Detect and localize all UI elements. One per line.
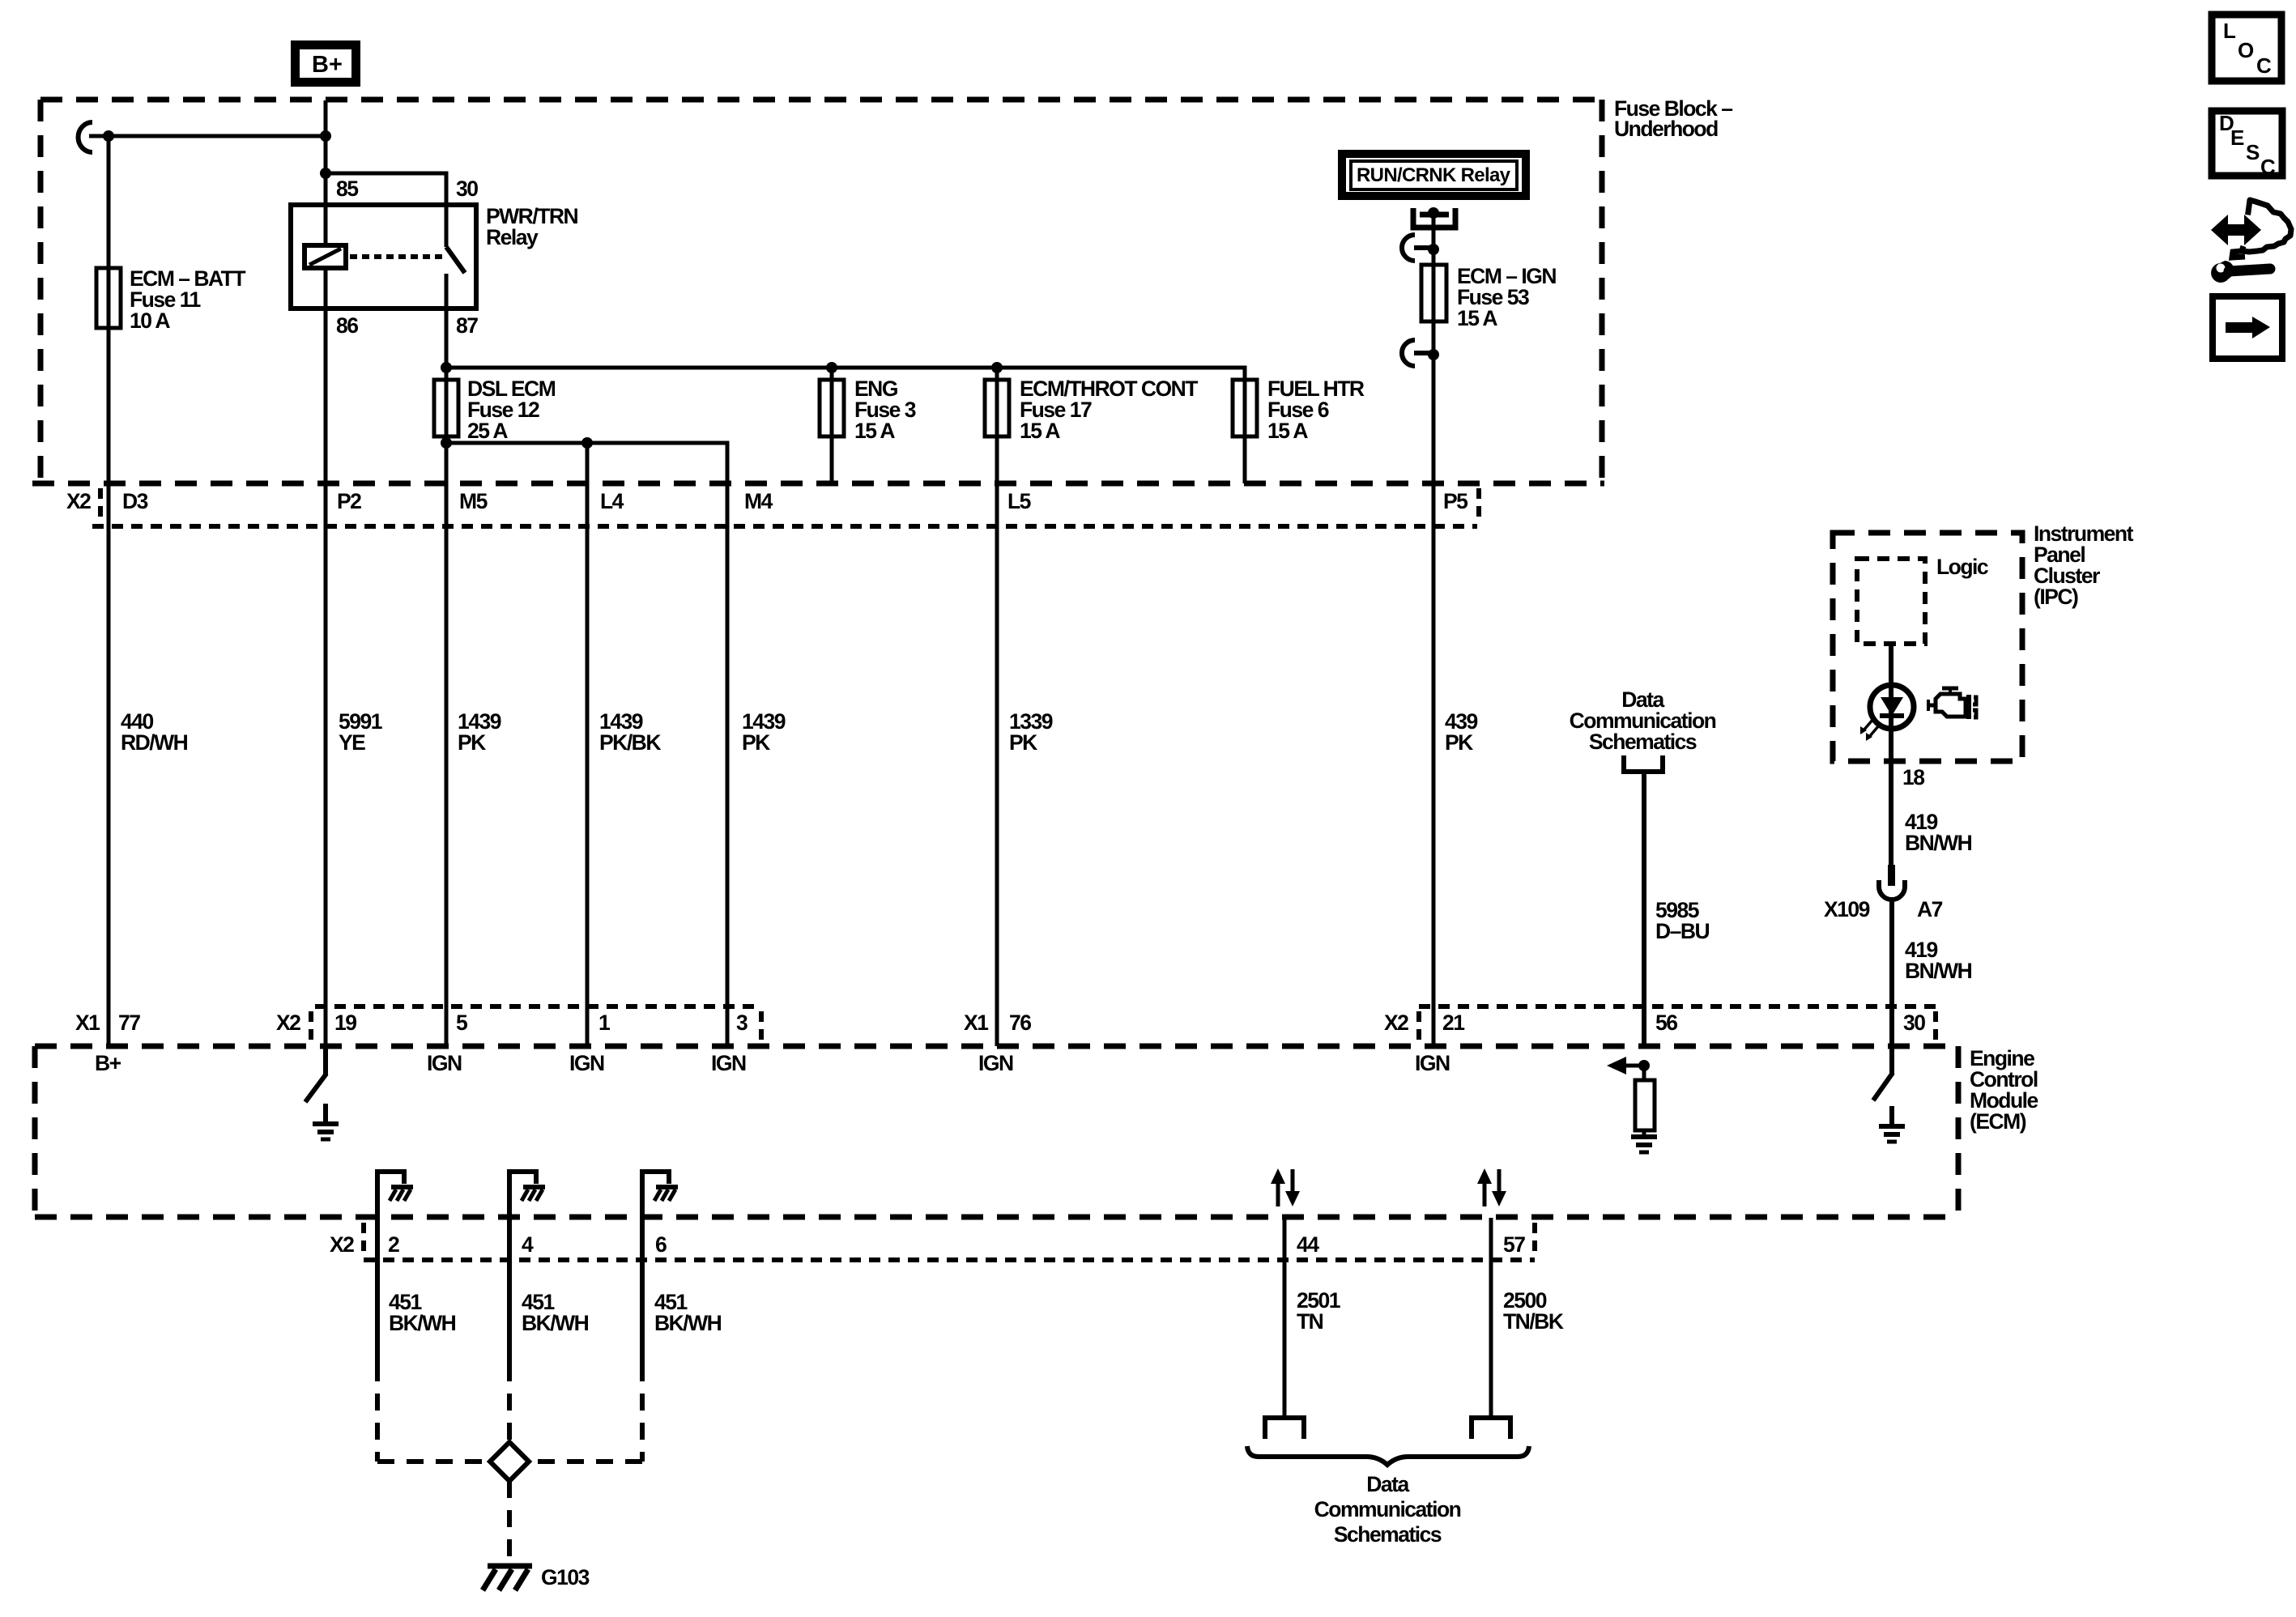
relay run/crnk output terminal bracket bbox=[1413, 207, 1455, 265]
junction dot on B+ bus at fuse 11 branch bbox=[103, 130, 114, 142]
connector X2 separator mark left bbox=[98, 488, 103, 521]
serial data bidirectional arrows pin 44 bbox=[1271, 1168, 1300, 1206]
svg-text:A7: A7 bbox=[1917, 897, 1943, 921]
svg-text:Data: Data bbox=[1366, 1472, 1409, 1496]
connector X2 separator mark at pin 19 bbox=[309, 1011, 313, 1043]
svg-text:Relay: Relay bbox=[486, 225, 539, 249]
svg-text:L: L bbox=[2223, 19, 2236, 43]
svg-text:76: 76 bbox=[1009, 1011, 1031, 1035]
svg-text:X2: X2 bbox=[330, 1232, 354, 1257]
junction dot below fuse 12 bbox=[441, 437, 452, 449]
connector separator mark right of pin 30 bbox=[1933, 1011, 1938, 1043]
relay K pwr/trn box bbox=[291, 205, 476, 309]
fuse block - underhood dashed enclosure bbox=[40, 100, 1602, 483]
wire L4 branch down bbox=[586, 443, 590, 1046]
svg-text:15 A: 15 A bbox=[1020, 419, 1060, 443]
connector X2 harness fine dash row 2 left segment bbox=[315, 1004, 761, 1009]
svg-text:6: 6 bbox=[655, 1232, 667, 1257]
svg-text:10 A: 10 A bbox=[130, 309, 170, 333]
wire relay pin 85 to coil bbox=[324, 173, 328, 245]
svg-text:BN/WH: BN/WH bbox=[1905, 831, 1972, 855]
clip hook below fuse 53 bbox=[1402, 340, 1439, 366]
connector row fuse block bottom long dash bbox=[32, 481, 1604, 487]
svg-text:BK/WH: BK/WH bbox=[522, 1311, 589, 1335]
icon DESC box bbox=[2212, 111, 2282, 179]
label FUEL HTR Fuse 6 15 A bbox=[1267, 377, 1365, 443]
ecm internal ground pin 4 bbox=[509, 1172, 545, 1218]
switch ecm run/crnk sense pin 30 bbox=[1873, 1046, 1893, 1100]
svg-text:Schematics: Schematics bbox=[1334, 1522, 1442, 1547]
svg-text:25 A: 25 A bbox=[467, 419, 508, 443]
off-page connector bracket data comm bbox=[1624, 755, 1663, 772]
label Data Communication Schematics top bbox=[1570, 687, 1716, 754]
svg-text:L4: L4 bbox=[600, 489, 624, 513]
fuse F17 ECM/THROT CONT bbox=[985, 368, 1009, 436]
brace data communication group bbox=[1247, 1446, 1529, 1465]
svg-text:15 A: 15 A bbox=[1267, 419, 1308, 443]
svg-text:P5: P5 bbox=[1443, 489, 1467, 513]
label ECM/THROT CONT Fuse 17 15 A bbox=[1020, 377, 1198, 443]
svg-text:B+: B+ bbox=[95, 1051, 121, 1075]
svg-text:(IPC): (IPC) bbox=[2034, 585, 2078, 609]
svg-text:L5: L5 bbox=[1007, 489, 1031, 513]
junction dot fused feed bus bbox=[441, 362, 452, 373]
connector separator mark right of pin 57 bbox=[1532, 1223, 1537, 1256]
svg-text:D3: D3 bbox=[122, 489, 148, 513]
label wire 419 BN/WH lower bbox=[1905, 938, 1972, 983]
icon LOC box bbox=[2212, 15, 2281, 81]
arrow serial data internal bbox=[1607, 1057, 1644, 1074]
relay coil bbox=[305, 245, 346, 268]
wire logic to MIL lamp bbox=[1889, 644, 1893, 866]
svg-text:IGN: IGN bbox=[1415, 1051, 1450, 1075]
splice S ground diamond bbox=[490, 1442, 529, 1481]
svg-text:RD/WH: RD/WH bbox=[121, 730, 188, 755]
svg-text:30: 30 bbox=[456, 177, 478, 201]
wire ground pin 2 to splice bbox=[377, 1218, 490, 1462]
wire fuse 11 to connector D3 bbox=[107, 328, 111, 1046]
ecm internal ground pin 2 bbox=[377, 1172, 413, 1218]
label wire 5991 YE bbox=[339, 709, 382, 755]
connector X2 separator mark at pin 21 bbox=[1416, 1011, 1421, 1043]
wire to relay pin 30 bbox=[326, 173, 446, 205]
svg-text:PK/BK: PK/BK bbox=[599, 730, 661, 755]
off-page connector bracket wire 2501 bbox=[1265, 1418, 1304, 1439]
fuse F12 DSL ECM bbox=[434, 380, 458, 436]
label wire 2500 TN/BK bbox=[1503, 1288, 1564, 1334]
svg-text:Underhood: Underhood bbox=[1614, 117, 1718, 141]
svg-text:15 A: 15 A bbox=[854, 419, 895, 443]
label wire 2501 TN bbox=[1297, 1288, 1340, 1334]
junction dot L4 branch bbox=[581, 437, 593, 449]
svg-text:C: C bbox=[2256, 53, 2272, 78]
wire below fuse 12 bbox=[445, 436, 449, 1046]
svg-text:X2: X2 bbox=[276, 1011, 300, 1035]
label wire 1339 PK bbox=[1009, 709, 1053, 755]
ground below pin 56 resistor bbox=[1631, 1130, 1657, 1152]
connector X2 harness fine dash row 2 right segment bbox=[1419, 1004, 1936, 1009]
wire fused feed bus horizontal bbox=[446, 368, 1245, 380]
icon forward arrow box bbox=[2213, 296, 2282, 359]
relay K run/crnk label box bbox=[1342, 154, 1526, 196]
connector separator mark right of pin 3 bbox=[759, 1011, 764, 1043]
LED MIL indicator bbox=[1860, 685, 1914, 741]
clip hook above fuse 53 bbox=[1402, 235, 1439, 261]
label wire 440 RD/WH bbox=[121, 709, 188, 755]
fuse F11 ECM-BATT bbox=[96, 268, 121, 328]
label ECM - BATT Fuse 11 10 A bbox=[130, 266, 245, 333]
off-page connector bracket wire 2500 bbox=[1472, 1418, 1510, 1439]
inline connector X109 terminal A7 bbox=[1879, 865, 1905, 1046]
wire ground pin 6 to splice bbox=[529, 1218, 642, 1462]
connector row 3 fine dash bbox=[364, 1257, 1535, 1262]
svg-text:1: 1 bbox=[598, 1011, 610, 1035]
label ENG Fuse 3 15 A bbox=[854, 377, 916, 443]
svg-text:56: 56 bbox=[1655, 1011, 1677, 1035]
svg-text:TN: TN bbox=[1297, 1309, 1323, 1334]
ecm internal ground pin 6 bbox=[642, 1172, 678, 1218]
svg-text:TN/BK: TN/BK bbox=[1503, 1309, 1564, 1334]
svg-text:18: 18 bbox=[1902, 765, 1924, 789]
svg-text:BK/WH: BK/WH bbox=[389, 1311, 456, 1335]
connector separator mark right of P5 bbox=[1476, 488, 1481, 521]
label wire 1439 PK (M5) bbox=[458, 709, 501, 755]
svg-text:RUN/CRNK Relay: RUN/CRNK Relay bbox=[1357, 164, 1511, 186]
svg-text:E: E bbox=[2230, 126, 2244, 150]
fuse F53 ECM-IGN bbox=[1421, 265, 1446, 321]
svg-text:85: 85 bbox=[336, 177, 358, 201]
svg-text:G103: G103 bbox=[541, 1565, 590, 1589]
fuse F6 FUEL HTR bbox=[1233, 380, 1257, 436]
wire B+ bus horizontal bbox=[89, 134, 326, 138]
relay switch blade bbox=[446, 247, 465, 273]
ground below pin 30 switch bbox=[1879, 1106, 1905, 1142]
engine control module dashed enclosure bbox=[35, 1046, 1958, 1217]
svg-text:M4: M4 bbox=[744, 489, 773, 513]
junction dot ENG fuse tap bbox=[826, 362, 837, 373]
label wire 451 BK/WH pin 4 bbox=[522, 1290, 589, 1335]
wire splice to G103 bbox=[507, 1481, 512, 1564]
label ECM - IGN Fuse 53 15 A bbox=[1457, 264, 1556, 330]
svg-text:2: 2 bbox=[388, 1232, 399, 1257]
svg-text:X1: X1 bbox=[75, 1011, 100, 1035]
switch ecm ignition sense pin 19 bbox=[305, 1046, 326, 1102]
label wire 5985 D-BU bbox=[1655, 898, 1710, 943]
label Data Communication Schematics bottom bbox=[1314, 1472, 1461, 1547]
svg-text:D–BU: D–BU bbox=[1655, 919, 1710, 943]
ground G103 chassis bbox=[483, 1566, 532, 1590]
label wire 419 BN/WH upper bbox=[1905, 810, 1972, 855]
svg-text:Communication: Communication bbox=[1314, 1497, 1461, 1521]
svg-text:PK: PK bbox=[1009, 730, 1037, 755]
svg-text:C: C bbox=[2260, 155, 2276, 179]
resistor terminating pin 56 bbox=[1635, 1066, 1655, 1130]
fuse F3 ENG bbox=[820, 368, 844, 436]
svg-text:57: 57 bbox=[1503, 1232, 1525, 1257]
svg-text:IGN: IGN bbox=[569, 1051, 604, 1075]
svg-text:YE: YE bbox=[339, 730, 365, 755]
logic module dashed box bbox=[1857, 559, 1925, 644]
svg-text:Logic: Logic bbox=[1936, 555, 1988, 579]
svg-text:M5: M5 bbox=[459, 489, 488, 513]
svg-text:P2: P2 bbox=[337, 489, 361, 513]
junction dot relay pins 85/30 split bbox=[320, 168, 331, 179]
label wire 1439 PK/BK (L4) bbox=[599, 709, 661, 755]
svg-text:15 A: 15 A bbox=[1457, 306, 1497, 330]
label DSL ECM Fuse 12 25 A bbox=[467, 377, 556, 443]
junction dot B+ at relay branch bbox=[320, 130, 331, 142]
wire relay pin 30 stub bbox=[445, 205, 449, 247]
wire pin 87 down bbox=[445, 309, 449, 380]
wire B+ into fuse block bbox=[324, 100, 328, 173]
wire relay coil to pin 86 bbox=[324, 268, 328, 309]
label wire 1439 PK (M4) bbox=[742, 709, 786, 755]
node B+ battery feed box bbox=[296, 45, 356, 83]
svg-text:86: 86 bbox=[336, 313, 358, 338]
svg-text:B+: B+ bbox=[312, 52, 343, 78]
junction dot ECM/THROT fuse tap bbox=[991, 362, 1003, 373]
instrument panel cluster dashed box bbox=[1833, 533, 2022, 761]
label Fuse Block - Underhood bbox=[1614, 96, 1732, 141]
junction dot pin 56 internal bbox=[1638, 1060, 1650, 1071]
wire FUEL HTR fuse to block edge bbox=[1243, 436, 1247, 483]
svg-text:21: 21 bbox=[1442, 1011, 1464, 1035]
svg-text:IGN: IGN bbox=[711, 1051, 746, 1075]
wire 2501 TN pin 44 bbox=[1283, 1218, 1287, 1418]
wire fuse 53 to connector P5 bbox=[1432, 321, 1436, 1046]
label Engine Control Module (ECM) bbox=[1970, 1046, 2038, 1134]
wire 2500 TN/BK pin 57 bbox=[1489, 1218, 1493, 1418]
svg-text:BN/WH: BN/WH bbox=[1905, 959, 1972, 983]
relay actuation dashed link bbox=[350, 254, 444, 259]
svg-text:X109: X109 bbox=[1824, 897, 1870, 921]
connector row harness fine dash bbox=[92, 524, 1477, 529]
wire fuse 11 branch down bbox=[107, 136, 111, 268]
label wire 451 BK/WH pin 6 bbox=[654, 1290, 722, 1335]
engine MIL icon bbox=[1928, 688, 1976, 719]
wire ECM/THROT fuse to connector L5 bbox=[995, 436, 999, 1046]
svg-text:44: 44 bbox=[1297, 1232, 1319, 1257]
wire ENG fuse to block edge bbox=[830, 436, 834, 483]
svg-text:PK: PK bbox=[1445, 730, 1473, 755]
icon adjust hand with double arrow and wrench bbox=[2211, 200, 2291, 283]
label wire 451 BK/WH pin 2 bbox=[389, 1290, 456, 1335]
svg-text:87: 87 bbox=[456, 313, 478, 338]
svg-text:(ECM): (ECM) bbox=[1970, 1109, 2026, 1134]
svg-text:BK/WH: BK/WH bbox=[654, 1311, 722, 1335]
clip continuation hook left of B+ bus bbox=[79, 122, 92, 152]
svg-text:5: 5 bbox=[456, 1011, 467, 1035]
wire ground pin 4 to splice bbox=[507, 1218, 512, 1442]
svg-text:PK: PK bbox=[742, 730, 770, 755]
svg-text:X2: X2 bbox=[1384, 1011, 1408, 1035]
svg-text:3: 3 bbox=[736, 1011, 748, 1035]
ground below pin 19 switch bbox=[313, 1104, 339, 1139]
svg-text:77: 77 bbox=[118, 1011, 140, 1035]
wire relay pin 87 stub bbox=[445, 274, 449, 309]
svg-text:O: O bbox=[2238, 38, 2254, 62]
wire branch bus to M4 bbox=[446, 443, 727, 1046]
svg-text:Schematics: Schematics bbox=[1589, 730, 1697, 754]
connector X2 separator mark row 3 left bbox=[361, 1223, 366, 1256]
label Instrument Panel Cluster (IPC) bbox=[2034, 521, 2134, 609]
svg-text:IGN: IGN bbox=[427, 1051, 462, 1075]
svg-text:PK: PK bbox=[458, 730, 486, 755]
svg-text:30: 30 bbox=[1903, 1011, 1925, 1035]
svg-text:X2: X2 bbox=[66, 489, 91, 513]
serial data bidirectional arrows pin 57 bbox=[1477, 1168, 1506, 1206]
svg-text:S: S bbox=[2246, 140, 2260, 164]
wire pin 86 to connector P2 bbox=[324, 309, 328, 1046]
svg-text:4: 4 bbox=[522, 1232, 534, 1257]
label PWR/TRN Relay bbox=[486, 204, 578, 249]
label wire 439 PK bbox=[1445, 709, 1477, 755]
svg-text:19: 19 bbox=[334, 1011, 356, 1035]
svg-text:IGN: IGN bbox=[978, 1051, 1013, 1075]
wire 5985 D-BU bbox=[1642, 772, 1646, 1046]
svg-text:X1: X1 bbox=[964, 1011, 988, 1035]
